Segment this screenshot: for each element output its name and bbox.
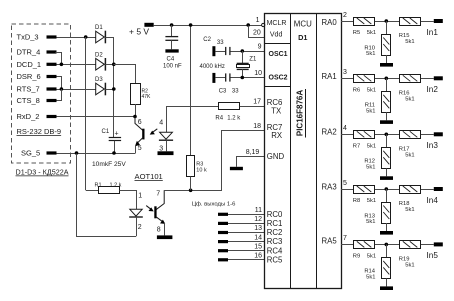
svg-text:C2: C2 [203, 37, 211, 43]
wire node to R14 [386, 244, 388, 257]
resistor R19 5k1 [400, 241, 421, 249]
wire to ground [386, 112, 388, 120]
svg-text:2: 2 [138, 224, 142, 231]
svg-text:RTS_7: RTS_7 [17, 85, 40, 94]
svg-text:+ 5 V: + 5 V [129, 26, 149, 36]
svg-text:5k1: 5k1 [367, 143, 376, 149]
light arrow to U1.1 [152, 129, 157, 133]
diode D2 [96, 59, 105, 71]
wire diode cathode bus [113, 37, 115, 137]
capacitor C3 33 [212, 73, 215, 83]
svg-text:5k1: 5k1 [405, 207, 414, 213]
node DSR/RTS/CTS junction [60, 87, 64, 91]
resistor R8 5k1 [354, 186, 375, 194]
capacitor C4 100nF [171, 25, 173, 37]
resistor R17 5k1 [400, 131, 421, 139]
resistor R10 5k1 [382, 35, 391, 56]
resistor R5 5k1 [354, 18, 375, 26]
svg-text:R8: R8 [353, 198, 360, 204]
ground under pin 8 [157, 235, 173, 239]
wire R9 row [341, 244, 354, 246]
MCU D1 PIC16F876A box [265, 14, 342, 289]
ground at MCU GND [230, 167, 243, 170]
ground under R11 [380, 120, 393, 124]
resistor R16 5k1 [400, 75, 421, 83]
phototransistor U1.1 pins 6 5 [135, 117, 143, 131]
svg-text:RA5: RA5 [322, 237, 338, 246]
resistor R11 5k1 [382, 92, 391, 113]
svg-text:RA1: RA1 [322, 72, 337, 81]
svg-text:5k1: 5k1 [366, 108, 375, 114]
svg-text:RA3: RA3 [322, 183, 337, 192]
svg-text:1: 1 [138, 192, 142, 199]
wire C1 bottom to SG [114, 141, 116, 153]
svg-text:OSC1: OSC1 [269, 51, 288, 58]
wire node to R11 [386, 78, 388, 91]
svg-text:9: 9 [258, 43, 262, 50]
input terminal In1 [434, 19, 443, 23]
wire R6 row [341, 78, 354, 80]
svg-text:1: 1 [256, 17, 260, 24]
wire to ground [386, 168, 388, 176]
ground under R12 [380, 176, 393, 180]
svg-text:6: 6 [138, 119, 142, 126]
wire to divider node [375, 21, 400, 23]
wire R16 to input terminal [421, 78, 434, 80]
svg-text:Vdd: Vdd [270, 32, 283, 39]
wire to ground [386, 55, 388, 63]
svg-text:RC4: RC4 [267, 246, 283, 255]
node SG branch junction [75, 151, 79, 155]
wire C3 to OSC2 [231, 77, 265, 79]
svg-text:1.2 k: 1.2 k [110, 183, 122, 189]
svg-text:33: 33 [217, 40, 224, 46]
svg-text:R6: R6 [353, 87, 360, 93]
wire to divider node [375, 189, 400, 191]
resistor R7 5k1 [354, 131, 375, 139]
svg-text:5k1: 5k1 [405, 96, 414, 102]
output terminal RC4 pin 15 [218, 249, 228, 252]
wire RTS_7 to D3 anode [57, 89, 96, 91]
wire R3 to junction [190, 177, 192, 191]
output terminal RC2 pin 13 [218, 231, 228, 234]
wire CTS_8 join RTS_7 [57, 89, 62, 101]
svg-text:C1: C1 [102, 129, 110, 135]
resistor R18 5k1 [400, 186, 421, 194]
svg-text:In4: In4 [427, 196, 439, 205]
output terminal RC3 pin 14 [218, 240, 228, 243]
svg-text:MCU: MCU [294, 19, 312, 28]
svg-text:4: 4 [343, 125, 347, 132]
input terminal In3 [434, 132, 443, 136]
svg-text:5k1: 5k1 [405, 262, 414, 268]
input terminal In5 [434, 242, 443, 246]
LED U1.2 pins 1 2 [130, 209, 142, 216]
svg-text:5k1: 5k1 [405, 152, 414, 158]
svg-text:Z1: Z1 [249, 57, 257, 63]
wire R1 to LED pin1 [119, 191, 136, 210]
wire R18 to input terminal [421, 189, 434, 191]
input terminal In4 [434, 187, 443, 191]
svg-text:R9: R9 [353, 253, 360, 259]
ground under LED pin3 [158, 151, 174, 155]
svg-text:5: 5 [138, 145, 142, 152]
node C1/SG junction [112, 151, 116, 155]
wire to ground [386, 223, 388, 231]
svg-text:5: 5 [343, 180, 347, 187]
wire DSR_6 join RTS_7 [57, 77, 62, 90]
node DTR/DCD junction [60, 63, 64, 67]
wire D2 cathode to R2 [114, 65, 136, 84]
svg-text:DSR_6: DSR_6 [17, 72, 41, 81]
svg-text:RX: RX [271, 131, 283, 140]
node R2/RxD/collector junction [133, 115, 137, 119]
wire collector pin7 to RX line [165, 131, 265, 191]
svg-text:RA2: RA2 [322, 127, 337, 136]
svg-text:11: 11 [255, 207, 262, 214]
svg-text:14: 14 [254, 234, 262, 241]
svg-text:RxD_2: RxD_2 [17, 112, 40, 121]
svg-text:2: 2 [343, 12, 347, 19]
svg-text:10mkF 25V: 10mkF 25V [92, 161, 126, 168]
wire Vdd pin 20 [249, 26, 265, 38]
output terminal RC5 pin 16 [218, 258, 228, 261]
svg-text:C3: C3 [219, 89, 227, 95]
wire R2 to collector node [135, 104, 137, 117]
svg-text:100 nF: 100 nF [163, 63, 182, 69]
svg-text:D1-D3 - КД522А: D1-D3 - КД522А [16, 168, 69, 177]
svg-text:4: 4 [159, 119, 163, 126]
wire +5V rail to MCLR [154, 25, 262, 27]
wire to ground [386, 278, 388, 286]
node D2 cathode junction [112, 63, 116, 67]
wire SG down to LED2 cathode [77, 154, 137, 237]
wire DTR_4 join DCD_1 [56, 53, 62, 65]
svg-text:R4: R4 [215, 116, 223, 122]
svg-text:10 k: 10 k [196, 168, 207, 174]
svg-text:GND: GND [267, 152, 285, 161]
svg-text:OSC2: OSC2 [269, 74, 288, 81]
node divider junction [385, 187, 389, 191]
svg-text:RS-232 DB-9: RS-232 DB-9 [17, 127, 62, 136]
resistor R4 1.2k [219, 103, 240, 110]
wire R19 to input terminal [421, 244, 434, 246]
svg-text:5k1: 5k1 [367, 87, 376, 93]
node Vdd rail junction [246, 23, 250, 27]
svg-text:Цф. выходы 1-6: Цф. выходы 1-6 [192, 201, 236, 207]
svg-text:13: 13 [254, 225, 262, 232]
wire R15 to input terminal [421, 21, 434, 23]
wire node to R10 [386, 21, 388, 34]
wire to divider node [375, 78, 400, 80]
node C4 junction [170, 23, 174, 27]
svg-text:5k1: 5k1 [366, 275, 375, 281]
svg-text:7: 7 [156, 190, 160, 197]
wire TxD_3 to D1 anode [57, 37, 96, 39]
wire R8 row [341, 189, 354, 191]
svg-text:R7: R7 [353, 143, 360, 149]
wire RxD_2 to phototransistor collector [57, 116, 136, 118]
svg-text:1.2 k: 1.2 k [227, 116, 241, 122]
wire R7 row [341, 134, 354, 136]
svg-text:17: 17 [253, 99, 261, 106]
output terminal RC0 pin 11 [218, 213, 228, 216]
svg-text:5k1: 5k1 [367, 198, 376, 204]
inversion bubble MCLR pin [262, 23, 265, 26]
svg-text:33: 33 [232, 89, 239, 95]
ground under R10 [380, 63, 393, 67]
svg-text:D2: D2 [95, 53, 103, 59]
light arrow to U1.2 [146, 206, 151, 210]
svg-text:D1: D1 [298, 33, 307, 42]
node OSC1/crystal junction [241, 49, 245, 53]
diode D3 [96, 83, 105, 95]
svg-text:3: 3 [343, 69, 347, 76]
svg-text:CTS_8: CTS_8 [17, 96, 40, 105]
svg-text:4000 kHz: 4000 kHz [200, 64, 225, 70]
svg-text:TxD_3: TxD_3 [17, 33, 39, 42]
wire DCD_1 to D2 anode [57, 64, 96, 66]
svg-text:D3: D3 [95, 77, 103, 83]
svg-text:RC5: RC5 [267, 255, 283, 264]
svg-text:C4: C4 [167, 56, 175, 62]
svg-text:47K: 47K [142, 94, 152, 100]
wire +5V to R3 [190, 25, 192, 156]
node TxD bus junction [84, 35, 88, 39]
node R3 junction [189, 189, 193, 193]
svg-text:20: 20 [253, 29, 261, 36]
wire R17 to input terminal [421, 134, 434, 136]
connector X1 RS-232 DB-9 dashed box [12, 24, 71, 163]
diode D1 [96, 31, 105, 43]
svg-text:5k1: 5k1 [367, 30, 376, 36]
svg-text:DTR_4: DTR_4 [17, 48, 41, 57]
wire node to R13 [386, 189, 388, 202]
wire C2 to OSC1 [231, 51, 265, 53]
output terminal RC1 pin 12 [218, 222, 228, 225]
svg-text:15: 15 [254, 243, 262, 250]
svg-text:12: 12 [254, 216, 262, 223]
svg-text:R1: R1 [95, 183, 102, 189]
node D3 cathode junction [112, 87, 116, 91]
svg-text:16: 16 [254, 253, 262, 260]
crystal Z1 [242, 51, 244, 63]
svg-text:PIC16F876A: PIC16F876A [296, 90, 305, 136]
svg-text:5k1: 5k1 [405, 39, 414, 45]
resistor R12 5k1 [382, 148, 391, 169]
wire GND pin 8,19 [237, 157, 265, 167]
svg-text:8,19: 8,19 [246, 149, 260, 156]
input terminal In2 [434, 76, 443, 80]
resistor R13 5k1 [382, 203, 391, 224]
svg-text:5k1: 5k1 [366, 51, 375, 57]
svg-text:+: + [115, 131, 119, 138]
svg-text:RC2: RC2 [267, 228, 283, 237]
svg-text:10: 10 [254, 70, 262, 77]
svg-text:RC1: RC1 [267, 219, 283, 228]
resistor R9 5k1 [354, 241, 375, 249]
ground under R14 [380, 286, 393, 290]
resistor R6 5k1 [354, 75, 375, 83]
wire TxD bus down to R1 [85, 37, 87, 190]
node OSC2/crystal junction [241, 76, 245, 80]
svg-text:5k1: 5k1 [366, 164, 375, 170]
svg-text:RC0: RC0 [267, 210, 283, 219]
svg-text:In5: In5 [427, 251, 439, 260]
svg-text:5k1: 5k1 [366, 219, 375, 225]
node divider junction [385, 19, 389, 23]
wire R5 row [341, 21, 354, 23]
resistor R15 5k1 [400, 18, 421, 26]
ground under C4 [165, 49, 178, 52]
wire R4 to LED pin4 [167, 107, 219, 133]
resistor R2 47k [131, 84, 141, 105]
resistor R14 5k1 [382, 258, 391, 279]
wire node to R12 [386, 134, 388, 147]
svg-text:7: 7 [343, 235, 347, 242]
wire R4 to RC6/TX pin17 [240, 106, 265, 108]
node divider junction [385, 133, 389, 137]
resistor R3 10k [187, 156, 195, 177]
ground under R13 [380, 231, 393, 235]
svg-text:18: 18 [253, 123, 261, 130]
node R3 rail junction [189, 23, 193, 27]
wire to divider node [375, 134, 400, 136]
svg-text:DCD_1: DCD_1 [17, 60, 42, 69]
svg-text:RA0: RA0 [322, 18, 338, 27]
svg-text:SG_5: SG_5 [21, 149, 40, 158]
wire to divider node [375, 244, 400, 246]
LED U1.1 pins 4 3 [160, 132, 173, 139]
svg-text:R5: R5 [353, 30, 360, 36]
svg-text:In2: In2 [427, 85, 439, 94]
svg-text:MCLR: MCLR [267, 20, 287, 27]
svg-text:AOT101: AOT101 [135, 172, 163, 181]
phototransistor U1.2 pins 7 8 [156, 190, 164, 209]
svg-text:RC3: RC3 [267, 237, 283, 246]
wire SG_5 line [57, 153, 136, 155]
resistor R1 1.2k [99, 187, 120, 194]
svg-text:TX: TX [271, 106, 282, 115]
svg-text:8: 8 [157, 226, 161, 233]
node divider junction [385, 243, 389, 247]
svg-text:5k1: 5k1 [367, 253, 376, 259]
node divider junction [385, 77, 389, 81]
svg-text:In3: In3 [427, 141, 439, 150]
svg-text:In1: In1 [427, 28, 439, 37]
svg-text:D1: D1 [95, 25, 103, 31]
